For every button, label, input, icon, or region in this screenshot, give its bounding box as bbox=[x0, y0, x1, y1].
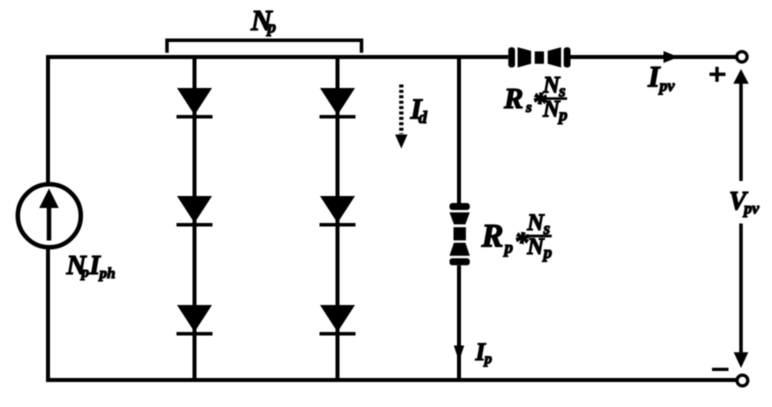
label Rs*Ns/Np bbox=[503, 72, 568, 124]
svg-text:R: R bbox=[481, 218, 504, 254]
label minus bbox=[712, 368, 729, 371]
svg-text:p: p bbox=[266, 17, 277, 36]
label NpIph bbox=[66, 250, 116, 282]
resistor Rp (shunt) bbox=[446, 203, 472, 265]
wire top rail bbox=[46, 55, 736, 59]
label Np bbox=[250, 5, 276, 37]
current Ip arrow bbox=[454, 346, 464, 362]
svg-text:s: s bbox=[525, 100, 532, 116]
svg-text:p: p bbox=[542, 243, 553, 262]
diode D6 bbox=[320, 305, 356, 336]
current Ipv arrow bbox=[664, 51, 679, 63]
terminal bottom right bbox=[737, 375, 748, 386]
label Ip bbox=[475, 339, 493, 367]
svg-text:p: p bbox=[80, 265, 90, 281]
label Ipv bbox=[647, 60, 676, 95]
wire diode string 2 bbox=[336, 57, 340, 380]
diode D2 bbox=[177, 196, 213, 227]
current source NpIph bbox=[18, 184, 81, 247]
label Rp*Ns/Np bbox=[481, 210, 553, 262]
terminal top right bbox=[737, 52, 747, 62]
voltage arrow Vpv bbox=[733, 69, 748, 368]
current Id dashed arrow bbox=[395, 85, 407, 149]
diode D1 bbox=[177, 88, 213, 119]
svg-text:p: p bbox=[557, 106, 568, 125]
diode D5 bbox=[320, 196, 356, 227]
wire left rail bbox=[46, 55, 50, 382]
label Id bbox=[410, 93, 428, 127]
svg-text:d: d bbox=[419, 108, 428, 127]
resistor Rs (series) bbox=[508, 45, 570, 70]
svg-text:N: N bbox=[526, 210, 545, 235]
Np bracket bbox=[167, 40, 362, 53]
svg-text:pv: pv bbox=[742, 201, 760, 218]
svg-text:ph: ph bbox=[98, 266, 116, 282]
label Vpv bbox=[729, 187, 760, 218]
wire shunt branch bbox=[457, 57, 461, 380]
wire diode string 1 bbox=[193, 57, 197, 380]
svg-text:R: R bbox=[503, 83, 523, 115]
svg-text:pv: pv bbox=[658, 78, 676, 95]
label plus bbox=[710, 67, 726, 82]
svg-text:p: p bbox=[503, 238, 514, 257]
diode D3 bbox=[177, 305, 213, 336]
wire bottom rail bbox=[46, 378, 737, 382]
svg-text:p: p bbox=[483, 351, 493, 367]
diode D4 bbox=[320, 88, 356, 119]
svg-text:N: N bbox=[526, 234, 545, 259]
